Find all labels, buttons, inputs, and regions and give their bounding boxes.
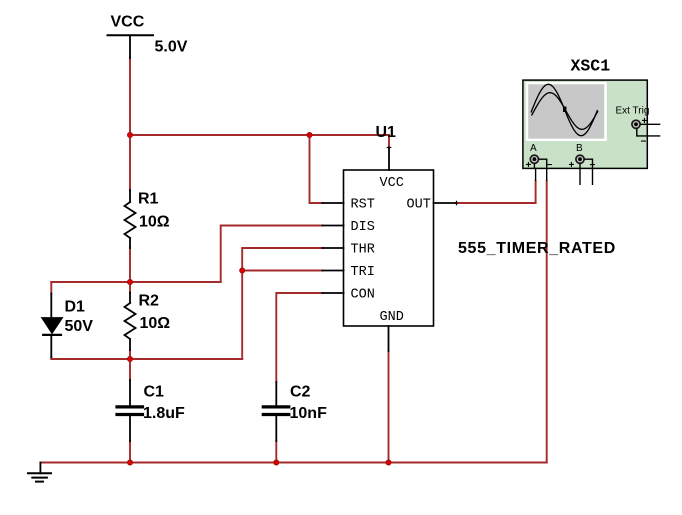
svg-text:RST: RST: [351, 198, 375, 213]
svg-text:1.8uF: 1.8uF: [143, 405, 185, 422]
svg-text:10Ω: 10Ω: [139, 214, 170, 231]
svg-text:−: −: [547, 160, 553, 171]
svg-text:DIS: DIS: [351, 220, 375, 235]
svg-text:B: B: [576, 143, 583, 154]
svg-text:A: A: [530, 143, 537, 154]
svg-text:10Ω: 10Ω: [140, 315, 171, 332]
svg-text:OUT: OUT: [407, 198, 431, 213]
svg-text:CON: CON: [351, 288, 375, 303]
svg-text:+: +: [642, 116, 648, 127]
svg-text:THR: THR: [351, 243, 375, 258]
svg-text:TRI: TRI: [351, 265, 375, 280]
svg-text:+: +: [526, 160, 532, 171]
svg-text:10nF: 10nF: [290, 405, 328, 422]
svg-text:XSC1: XSC1: [571, 57, 611, 76]
svg-text:−: −: [590, 160, 596, 171]
svg-text:R2: R2: [139, 293, 160, 310]
svg-text:555_TIMER_RATED: 555_TIMER_RATED: [458, 240, 616, 257]
svg-text:50V: 50V: [65, 318, 94, 335]
svg-text:U1: U1: [376, 124, 397, 141]
svg-text:R1: R1: [138, 191, 159, 208]
svg-text:GND: GND: [380, 310, 404, 325]
svg-text:Ext Trig: Ext Trig: [616, 106, 650, 117]
svg-text:C1: C1: [144, 384, 165, 401]
svg-text:VCC: VCC: [111, 14, 145, 31]
svg-text:C2: C2: [290, 384, 311, 401]
svg-text:VCC: VCC: [380, 176, 404, 191]
svg-text:+: +: [569, 160, 575, 171]
svg-text:5.0V: 5.0V: [155, 39, 188, 56]
svg-text:−: −: [641, 137, 647, 148]
svg-text:D1: D1: [65, 299, 86, 316]
